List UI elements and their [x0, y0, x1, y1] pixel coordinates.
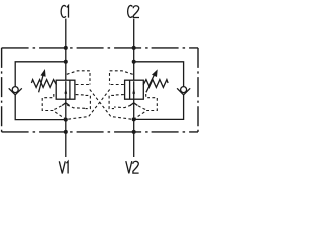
right drain link to spring chamber	[138, 106, 146, 110]
wire left top branch	[15, 62, 66, 87]
right pilot from C2 line: diagonal + top rect	[110, 71, 133, 85]
node V2 bottom branch	[132, 117, 136, 121]
spring left	[31, 80, 56, 88]
left drain link to bracket	[67, 105, 85, 108]
wire V2 vertical	[133, 99, 135, 157]
pilot cross line left-to-V2	[90, 90, 133, 120]
wire C2 vertical	[133, 19, 135, 81]
label C2	[128, 5, 139, 17]
flow arrowhead on V2 line	[130, 103, 137, 106]
node V1 bottom branch	[64, 118, 68, 122]
node V2/envelope	[132, 130, 136, 134]
pilot dashed network	[42, 71, 157, 120]
check valve right	[177, 87, 190, 95]
node C2/envelope	[132, 46, 136, 50]
right bracket	[109, 95, 114, 108]
right spring-chamber drain rect	[134, 94, 157, 119]
wire right top branch	[134, 62, 184, 87]
junction dots	[64, 46, 136, 134]
left bracket	[86, 95, 91, 108]
left spring-chamber drain rect	[42, 94, 65, 119]
label C1	[61, 5, 68, 17]
node C1/envelope	[64, 46, 68, 50]
check valve left	[9, 87, 22, 95]
valve envelope right	[125, 80, 144, 99]
boundary dash-dot envelope	[2, 48, 198, 132]
node C2 top branch	[132, 60, 136, 64]
node V1/envelope	[64, 130, 68, 134]
wire right bottom branch	[134, 95, 184, 120]
flow arrow in left envelope	[65, 81, 68, 99]
flow arrowhead on V1 line	[62, 103, 69, 106]
pilot cross line right-to-V1	[66, 90, 109, 120]
left pilot from C1 line: diagonal + top rect	[67, 71, 90, 85]
wire left bottom branch	[15, 95, 66, 120]
valve envelope left	[56, 80, 75, 99]
left drain link to spring chamber	[53, 106, 61, 110]
adjustment arrow left	[39, 69, 46, 92]
wire V1 vertical	[65, 99, 67, 157]
node C1 top branch	[64, 60, 68, 64]
wire C1 vertical	[65, 19, 67, 81]
left pilot stub lower	[76, 94, 86, 96]
label V2	[126, 161, 139, 173]
spring right	[143, 80, 168, 88]
label V1	[59, 161, 68, 173]
right pilot stub lower	[114, 94, 124, 96]
adjustment arrow right	[146, 69, 158, 92]
flow arrow in right envelope	[132, 81, 135, 99]
left pilot stub upper	[76, 84, 90, 86]
right drain link to bracket	[114, 105, 131, 107]
right pilot stub upper	[110, 84, 124, 86]
